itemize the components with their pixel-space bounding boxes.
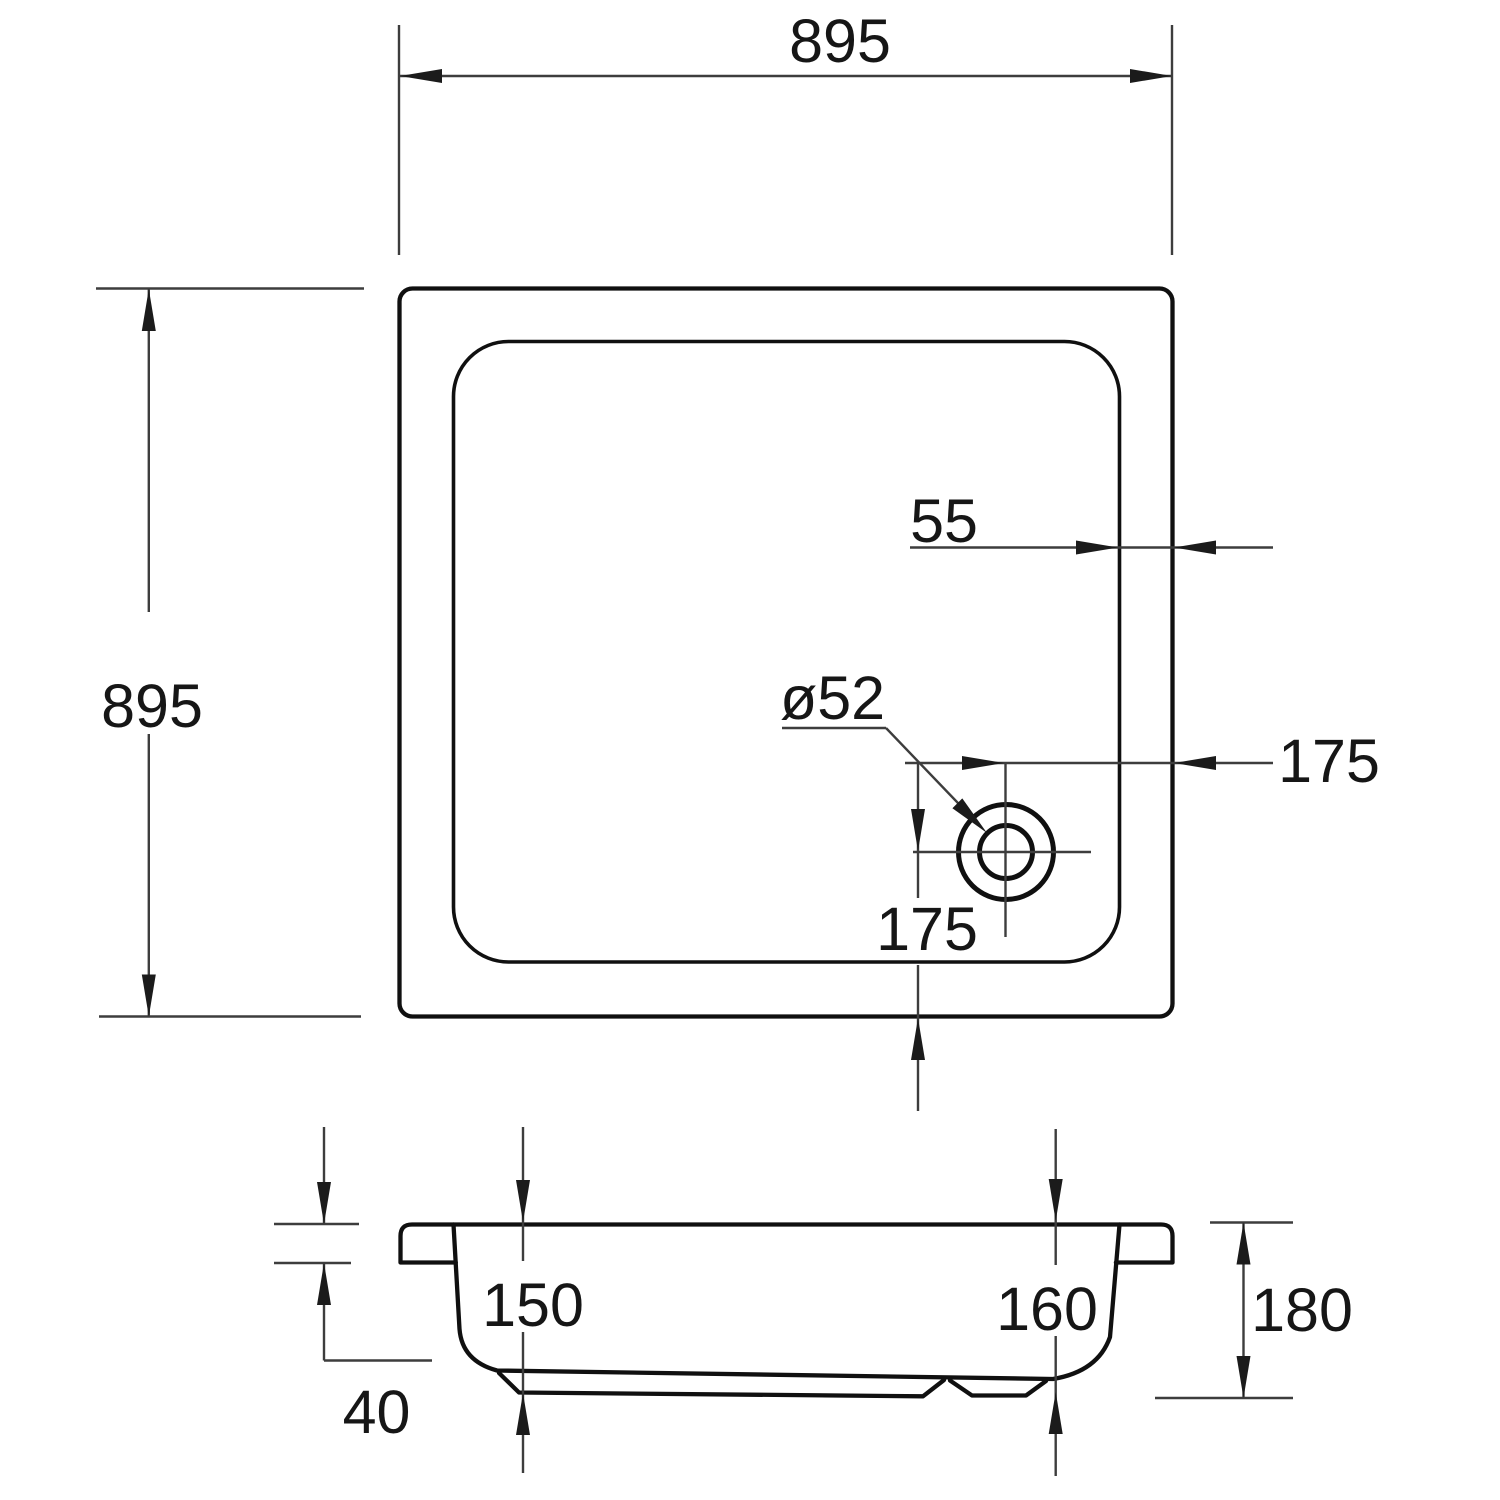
leader ø52: diagonal line [886, 728, 980, 826]
dimension 895 top: left arrowhead [400, 69, 442, 83]
dimension 895 top: dimension line [400, 75, 1172, 77]
dimension 895 top: right arrowhead [1130, 69, 1172, 83]
dimension 180: extension line bottom [1155, 1397, 1293, 1399]
dimension 40: extension line bottom [274, 1262, 351, 1264]
dimension 160: dimension line lower segment [1054, 1336, 1056, 1476]
dimension 40: bottom arrowhead [317, 1263, 331, 1305]
dimension 895 left: bottom arrowhead [142, 975, 156, 1017]
dimension 160: dimension line upper segment [1054, 1129, 1056, 1265]
dimension 160: bottom arrowhead [1049, 1392, 1063, 1434]
dimension 40: dimension line upper tail [323, 1127, 325, 1224]
dimension 175 bottom: top arrowhead [911, 809, 925, 851]
dimension 895 left: extension line top [96, 287, 364, 289]
svg-text:175: 175 [1278, 727, 1380, 795]
dimension 55: right arrowhead [1174, 541, 1216, 555]
dimension 150: top arrowhead [516, 1180, 530, 1222]
dimension 150: bottom arrowhead [516, 1393, 530, 1435]
dimension 895 top: extension line left [398, 25, 400, 255]
dimension 40: elbow line [324, 1359, 432, 1361]
dimension 55: dimension line [910, 546, 1273, 548]
dimension 175 right: right arrowhead [1174, 756, 1216, 770]
dimension 40: extension line top [274, 1223, 359, 1225]
section outline: rim top surface with lips [401, 1225, 1173, 1263]
dimension 895 top: extension line right [1171, 25, 1173, 255]
svg-text:55: 55 [910, 487, 978, 555]
svg-text:40: 40 [343, 1378, 411, 1446]
dimension 180: top arrowhead [1237, 1223, 1251, 1265]
svg-text:150: 150 [482, 1271, 584, 1339]
dimension 180: dimension line [1242, 1223, 1244, 1399]
dimension 175 bottom: dimension line lower segment [917, 965, 919, 1111]
dimension 895 left: dimension line lower segment [148, 734, 150, 1017]
dimension 175 right: dimension line [905, 762, 1273, 764]
dimension 150: dimension line upper segment [522, 1127, 524, 1261]
dimension 180: bottom arrowhead [1237, 1356, 1251, 1398]
dimension 895 left: dimension line upper segment [148, 289, 150, 612]
dimension 175 bottom: dimension line upper segment [917, 763, 919, 898]
section outline: underside [499, 1373, 944, 1396]
dimension 160: top arrowhead [1049, 1179, 1063, 1221]
svg-text:895: 895 [101, 672, 203, 740]
dimension 150: dimension line lower segment [522, 1332, 524, 1473]
dimension 40: top arrowhead [317, 1182, 331, 1224]
svg-text:175: 175 [876, 895, 978, 963]
dimension 55: left arrowhead [1076, 541, 1118, 555]
svg-text:ø52: ø52 [780, 664, 885, 732]
drain centerline horizontal [913, 851, 1091, 853]
section outline: drain recess pocket [950, 1381, 1046, 1396]
svg-text:895: 895 [789, 7, 891, 75]
svg-text:160: 160 [996, 1275, 1098, 1343]
dimension 40: dimension line lower tail [323, 1263, 325, 1361]
svg-text:180: 180 [1251, 1276, 1353, 1344]
dimension 175 bottom: bottom arrowhead [911, 1018, 925, 1060]
dimension 895 left: extension line bottom [99, 1015, 361, 1017]
drain centerline vertical [1004, 763, 1006, 937]
dimension 895 left: top arrowhead [142, 289, 156, 331]
dimension 175 right: left arrowhead [962, 756, 1004, 770]
section outline: inner walls and floor [454, 1225, 1120, 1380]
drain outer circle [959, 805, 1054, 900]
leader ø52: arrowhead [952, 798, 987, 833]
dimension 180: extension line top [1210, 1221, 1293, 1223]
leader ø52: underline [782, 727, 886, 729]
drain hole circle ø52 [980, 826, 1033, 879]
tray inner basin edge (top view) [454, 342, 1120, 963]
tray outer edge (top view) [400, 289, 1173, 1017]
